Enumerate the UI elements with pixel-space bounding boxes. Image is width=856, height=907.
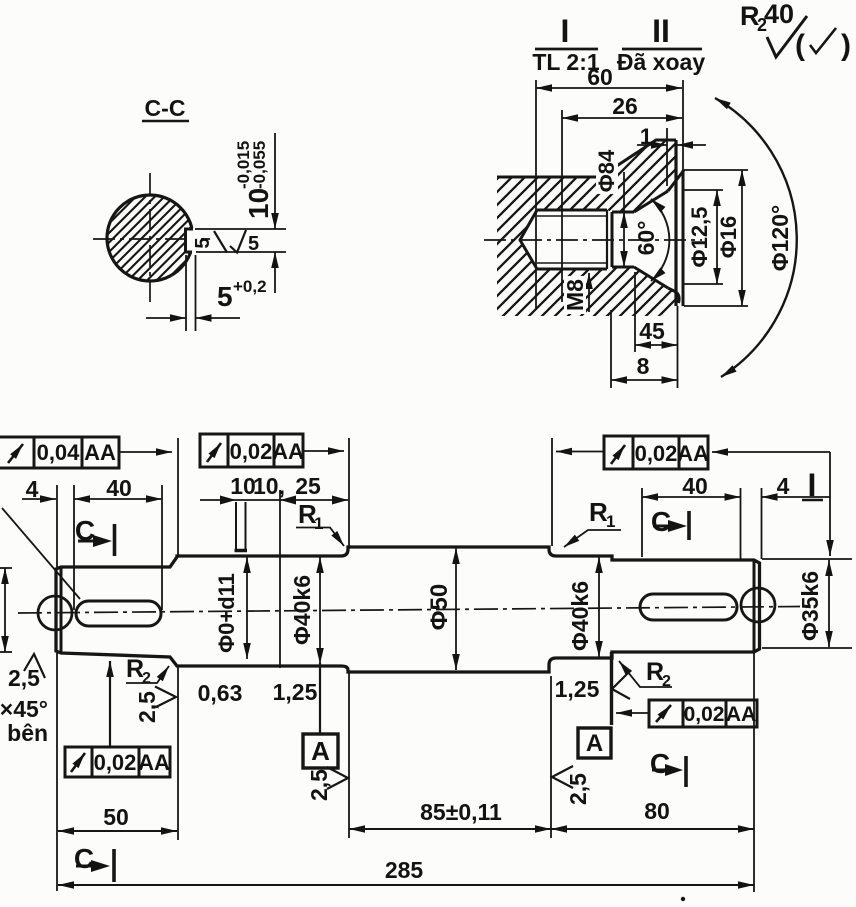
svg-text:0,02: 0,02 [230, 439, 273, 464]
roughness 5 marks in keyway [214, 230, 246, 253]
svg-text:+0,2: +0,2 [233, 277, 267, 296]
tolerance frame F1 0,04 AA [0, 437, 119, 468]
svg-text:C: C [75, 515, 95, 546]
svg-text:0,02: 0,02 [94, 750, 137, 775]
svg-text:85±0,11: 85±0,11 [420, 799, 502, 825]
centre hole: cone tip + M8 thread [520, 210, 537, 269]
svg-text:Φ84: Φ84 [594, 149, 619, 192]
svg-text:Đã xoay: Đã xoay [617, 49, 705, 75]
dim 60 [536, 80, 683, 308]
svg-text:25: 25 [295, 473, 321, 499]
svg-text:10,: 10, [253, 473, 285, 499]
svg-text:A: A [586, 730, 603, 757]
phi 12,5 dim [684, 190, 723, 284]
svg-text:2,5: 2,5 [565, 773, 591, 805]
right keyway slot [640, 594, 737, 620]
svg-text:40: 40 [682, 473, 708, 499]
M8 label + leader [588, 273, 590, 312]
thin extension lines [0, 438, 852, 892]
bottom length dims [58, 829, 754, 885]
svg-text:2 bên: 2 bên [0, 720, 48, 746]
svg-text:AA: AA [138, 750, 170, 775]
svg-text:40: 40 [106, 475, 132, 501]
dim 26 [562, 110, 682, 302]
svg-text:): ) [841, 29, 851, 62]
right keyway cutter circle [741, 588, 775, 622]
svg-text:0,63: 0,63 [198, 680, 243, 706]
dim 1 [637, 128, 706, 186]
svg-text:AA: AA [726, 703, 756, 726]
centerlines [93, 173, 210, 302]
svg-text:1: 1 [314, 514, 323, 533]
svg-text:5: 5 [248, 233, 259, 255]
left keyway cutter circle [38, 596, 72, 630]
svg-text:A: A [311, 736, 330, 766]
leader from cut-off note to keyway circle [2, 508, 80, 599]
svg-text:8: 8 [637, 353, 650, 379]
svg-text:2,5: 2,5 [134, 691, 160, 723]
svg-text:0,02: 0,02 [635, 441, 678, 466]
svg-text:1,25: 1,25 [273, 679, 318, 705]
material outline [497, 140, 676, 177]
tolerance frame F4 0,02 AA [649, 700, 757, 727]
svg-text:10: 10 [230, 473, 256, 499]
60 deg cone [634, 191, 668, 212]
svg-text:M8: M8 [562, 279, 588, 311]
svg-text:4: 4 [777, 473, 790, 499]
svg-text:I: I [808, 467, 817, 503]
svg-text:60°: 60° [633, 221, 659, 256]
svg-text:Φ40k6: Φ40k6 [289, 575, 315, 645]
svg-text:1,25: 1,25 [555, 676, 600, 702]
end chamfer lines [60, 567, 63, 653]
svg-text:AA: AA [677, 441, 709, 466]
hatched material with centre-hole cut [497, 140, 676, 316]
svg-text:Φ0+d11: Φ0+d11 [214, 573, 239, 653]
svg-text:5: 5 [217, 281, 233, 312]
shaft outline [56, 547, 760, 672]
right keyway dims 40 / 4 and I mark [642, 496, 830, 498]
60deg angle arc + label [651, 199, 669, 281]
svg-text:Φ12,5: Φ12,5 [687, 207, 712, 268]
svg-text:0,02: 0,02 [684, 703, 725, 726]
phi 8.4 land [612, 211, 634, 214]
section C arrows [76, 511, 689, 882]
datum A boxes [319, 663, 321, 734]
centerline [484, 239, 702, 241]
svg-text:285: 285 [385, 857, 424, 883]
svg-text:1: 1 [606, 512, 615, 531]
svg-text:C: C [74, 843, 94, 874]
svg-text:4: 4 [26, 476, 39, 502]
phi 120 arc + label [715, 98, 797, 377]
phi 84 label + dim [623, 172, 625, 267]
svg-text:26: 26 [612, 93, 638, 119]
roughness marks [24, 654, 631, 789]
svg-text:C: C [651, 506, 671, 537]
svg-text:Φ50: Φ50 [426, 584, 453, 630]
tolerance frame F5 0,02 AA [65, 747, 170, 777]
svg-text:60: 60 [587, 64, 613, 90]
svg-text:50: 50 [103, 804, 129, 830]
svg-text:Φ16: Φ16 [716, 216, 741, 259]
10 -0,015 -0,055 rotated label [234, 141, 274, 219]
svg-text:-0,055: -0,055 [250, 141, 269, 189]
svg-text:1: 1 [640, 124, 652, 149]
end face and chamfer line [674, 140, 677, 306]
svg-text:C: C [650, 748, 670, 779]
svg-text:Φ35k6: Φ35k6 [797, 571, 823, 641]
top-left chain dims 4 / 40 [22, 498, 162, 500]
keyway width 10 dim [195, 133, 286, 293]
left keyway slot [76, 601, 161, 626]
svg-text:(: ( [795, 29, 805, 62]
svg-text:10: 10 [243, 188, 274, 219]
svg-text:45: 45 [639, 318, 665, 344]
tolerance frame F3 0,02 AA [604, 436, 708, 469]
svg-text:Φ40k6: Φ40k6 [567, 581, 593, 651]
dim 45 / 8 under detail [611, 272, 678, 388]
hatched shaft circle [107, 195, 193, 281]
svg-text:2×45°: 2×45° [0, 696, 48, 722]
svg-text:AA: AA [84, 440, 116, 465]
keyway depth 5+0,2 dim [146, 255, 240, 331]
svg-text:80: 80 [644, 798, 670, 824]
diameter dimension lines [5, 548, 829, 670]
keyway notch (white cut) [185, 228, 199, 254]
svg-text:Φ120°: Φ120° [767, 205, 793, 271]
svg-text:0,04: 0,04 [37, 440, 81, 465]
centerline [18, 607, 800, 614]
tolerance frame F2 0,02 AA [200, 434, 303, 467]
svg-text:5: 5 [192, 237, 214, 248]
10 10 25 chain over S2 [200, 499, 348, 501]
svg-text:C-C: C-C [145, 95, 186, 121]
svg-text:2: 2 [142, 670, 151, 687]
svg-text:II: II [652, 13, 670, 49]
svg-text:AA: AA [272, 439, 304, 464]
svg-text:40: 40 [764, 0, 794, 29]
svg-text:2,5: 2,5 [306, 769, 332, 801]
svg-text:2,5: 2,5 [8, 665, 40, 691]
svg-text:I: I [561, 13, 570, 49]
phi 16 dim [684, 170, 748, 306]
120 deg mouth chamfer [668, 170, 684, 191]
